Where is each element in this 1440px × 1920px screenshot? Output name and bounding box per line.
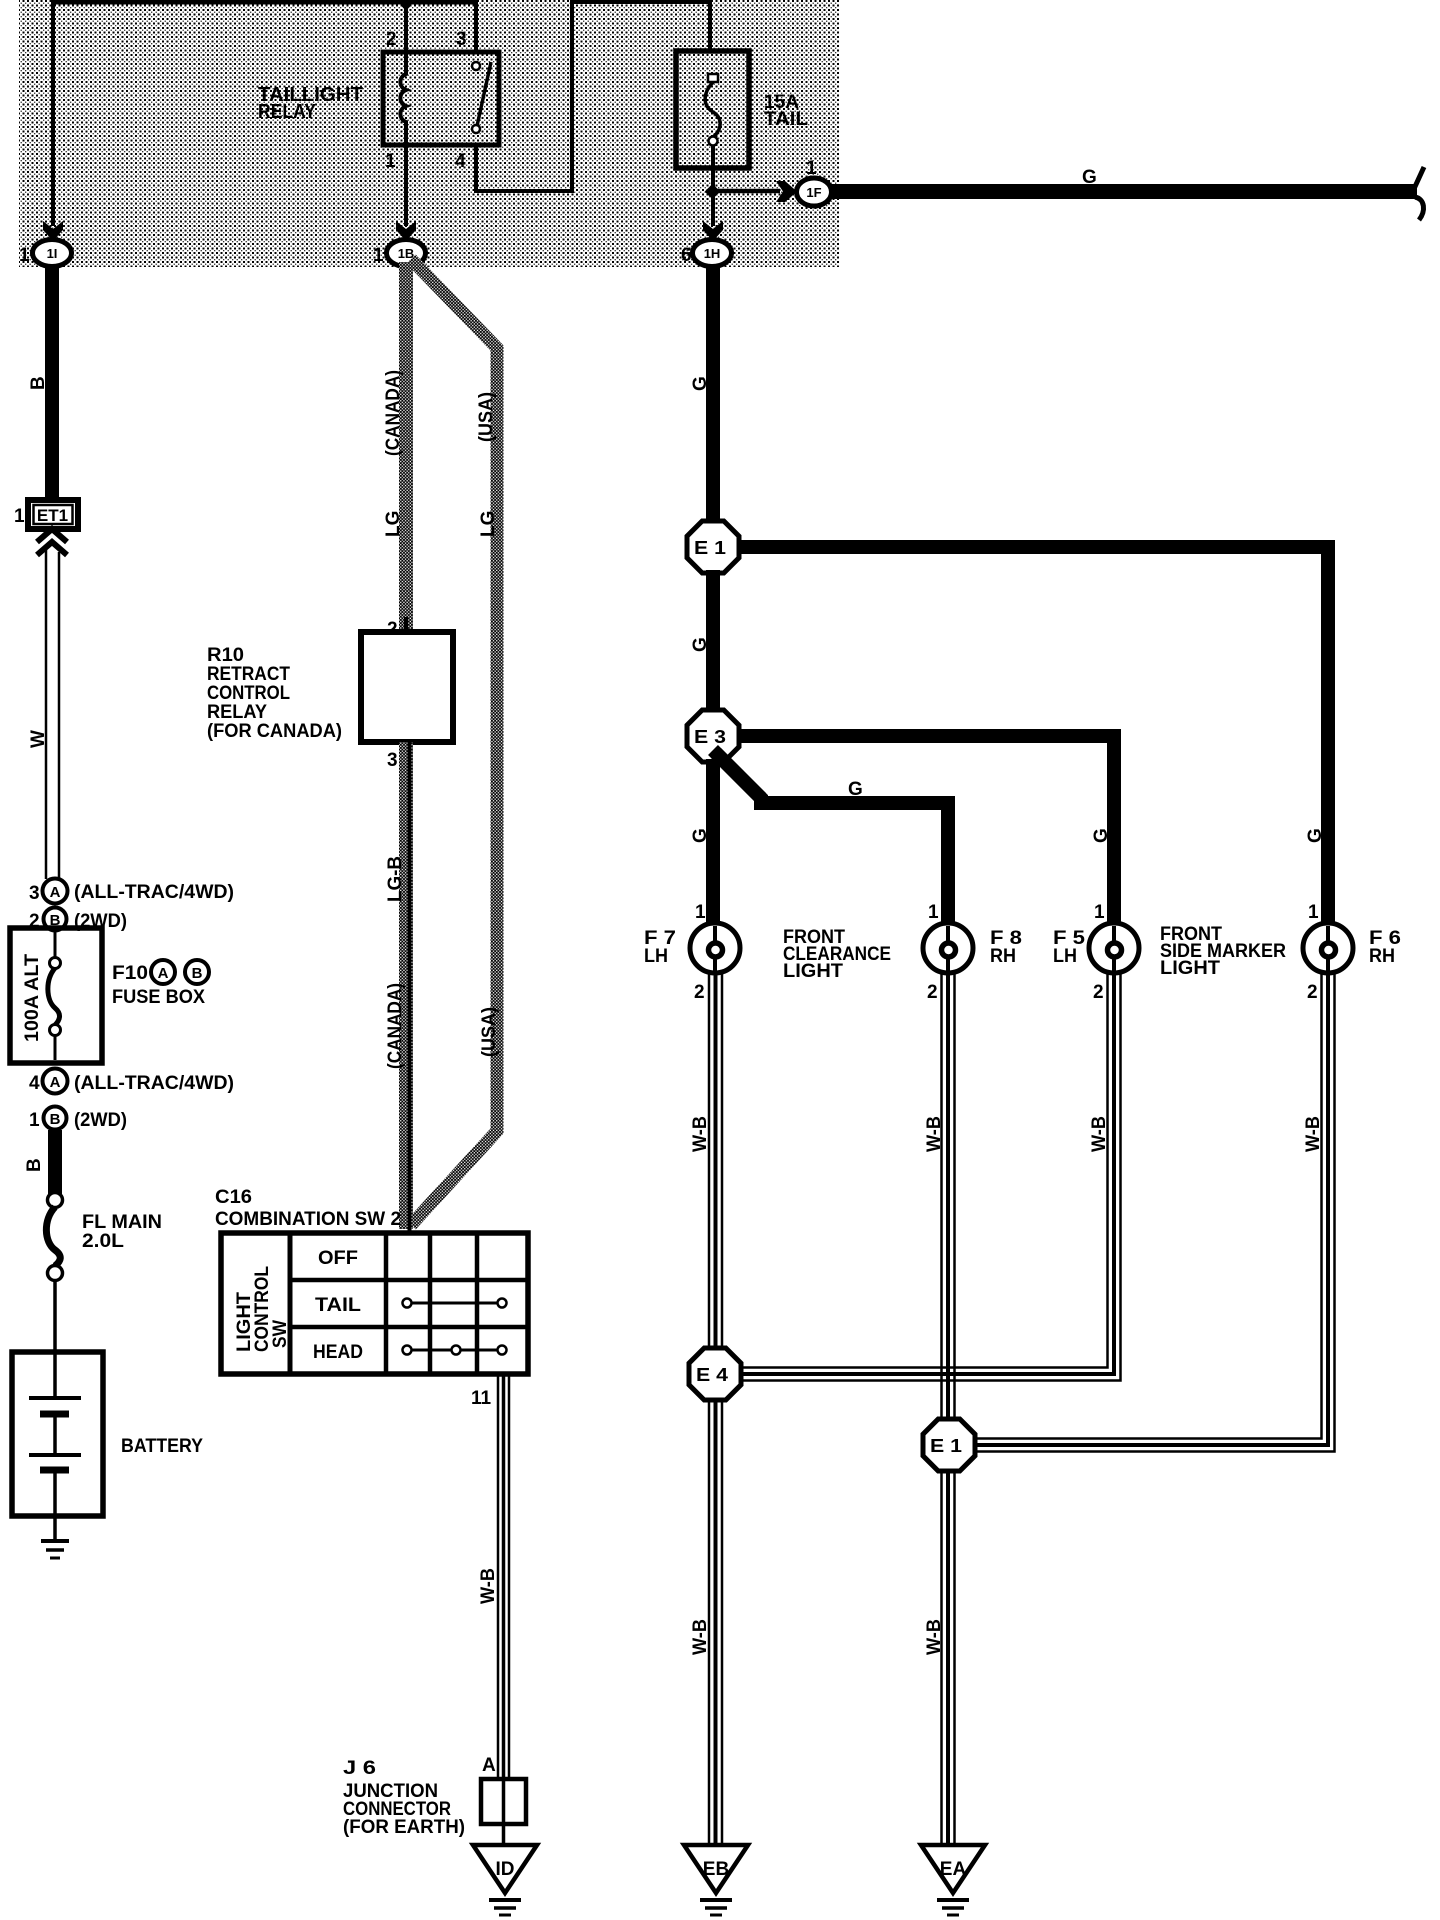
svg-text:1: 1: [29, 1110, 40, 1131]
svg-text:EB: EB: [703, 1859, 729, 1880]
wire: relay pin1 down to 1B: [404, 145, 408, 226]
svg-text:4: 4: [29, 1073, 40, 1094]
svg-text:11: 11: [471, 1388, 492, 1409]
wire: thick G from E1 to E3: [706, 570, 720, 715]
svg-text:LG-B: LG-B: [385, 856, 406, 902]
svg-text:1: 1: [806, 158, 817, 179]
connector circle A (pin3 ALL-TRAC/4WD): [43, 879, 68, 904]
wire: junction to 1F connector: [713, 189, 780, 194]
svg-text:LIGHT: LIGHT: [783, 961, 843, 982]
wire: W-B from switch pin 11 to junction connector J6: [497, 1376, 500, 1779]
svg-text:(ALL-TRAC/4WD): (ALL-TRAC/4WD): [74, 1073, 234, 1094]
fuse element: wavy link: [705, 82, 720, 137]
arrow into connector 1B: [396, 221, 416, 241]
svg-text:100A ALT: 100A ALT: [22, 954, 43, 1042]
svg-text:W-B: W-B: [1089, 1116, 1110, 1152]
svg-text:ET1: ET1: [37, 506, 68, 525]
junction connector J6 box: [481, 1779, 526, 1824]
wire: thick G from E1 right and down to F6: [735, 547, 1328, 925]
svg-text:3: 3: [387, 750, 398, 771]
svg-text:COMBINATION SW 2: COMBINATION SW 2: [215, 1209, 401, 1230]
svg-text:RH: RH: [990, 946, 1016, 967]
ground triangle EB: [684, 1845, 748, 1893]
svg-text:B: B: [192, 965, 203, 982]
svg-text:(2WD): (2WD): [74, 1110, 127, 1131]
svg-text:RELAY: RELAY: [258, 101, 317, 123]
svg-text:2: 2: [1307, 982, 1318, 1003]
wire: fuse bottom down to junction and 1H: [711, 145, 715, 226]
svg-text:B: B: [50, 1111, 61, 1128]
svg-text:(FOR CANADA): (FOR CANADA): [207, 721, 342, 742]
battery box: [12, 1352, 103, 1516]
svg-text:W-B: W-B: [924, 1619, 945, 1655]
svg-text:LH: LH: [644, 946, 668, 967]
svg-text:(CANADA): (CANADA): [385, 983, 406, 1069]
svg-text:LG: LG: [478, 511, 499, 537]
ground triangle ID: [473, 1845, 537, 1893]
svg-text:1I: 1I: [47, 246, 58, 261]
lamp F7 LH front clearance light: [690, 923, 740, 973]
connector E1 octagon: [687, 521, 739, 573]
svg-text:1: 1: [695, 902, 706, 923]
combination switch table box: [221, 1233, 528, 1374]
svg-text:W-B: W-B: [1303, 1116, 1324, 1152]
svg-text:E 3: E 3: [694, 727, 726, 747]
svg-text:RELAY: RELAY: [207, 702, 267, 723]
svg-text:FUSE BOX: FUSE BOX: [112, 987, 205, 1008]
fusible link FL MAIN 2.0L: [48, 1193, 63, 1208]
svg-text:A: A: [482, 1755, 496, 1776]
svg-text:RH: RH: [1369, 946, 1395, 967]
svg-text:TAIL: TAIL: [764, 109, 808, 130]
wire: broken-end squiggle of G feed: [1413, 167, 1424, 220]
connector 1H oval: [693, 240, 732, 267]
svg-text:2: 2: [694, 982, 705, 1003]
svg-text:G: G: [1305, 828, 1326, 843]
svg-text:(USA): (USA): [476, 392, 497, 442]
svg-text:J 6: J 6: [343, 1758, 376, 1779]
svg-text:C16: C16: [215, 1187, 252, 1208]
table row separators: [290, 1278, 528, 1283]
svg-text:W-B: W-B: [924, 1116, 945, 1152]
svg-text:1: 1: [14, 506, 25, 527]
wire: relay pin4 down, right, up and over to fuse: [476, 2, 710, 191]
relay switch arm: [477, 62, 491, 126]
svg-text:(USA): (USA): [479, 1007, 500, 1057]
svg-text:1: 1: [373, 245, 384, 266]
svg-text:A: A: [158, 965, 169, 982]
svg-text:2: 2: [1093, 982, 1104, 1003]
svg-text:2.0L: 2.0L: [82, 1231, 124, 1252]
svg-text:W-B: W-B: [690, 1116, 711, 1152]
svg-text:LIGHT: LIGHT: [1160, 958, 1220, 979]
svg-text:G: G: [690, 376, 711, 391]
retract control relay R10 box: [404, 617, 408, 632]
relay contact lower: [472, 125, 480, 133]
wire: W-B from E4 down to EB ground: [709, 1400, 722, 1845]
fuse element inside 100A ALT: [54, 931, 57, 958]
switch contacts HEAD row: [407, 1349, 502, 1352]
fuse element: top terminal square: [708, 74, 718, 82]
wire: thick G from E3 down to F7: [706, 759, 720, 925]
svg-text:G: G: [1091, 828, 1112, 843]
wire: thick G from E3 right and down to F5: [735, 736, 1114, 925]
relay coil winding inside taillight relay: [400, 52, 406, 145]
connector II oval: [33, 240, 72, 267]
svg-text:LH: LH: [1053, 946, 1077, 967]
svg-text:6: 6: [681, 245, 692, 266]
svg-text:W-B: W-B: [478, 1568, 499, 1604]
svg-text:B: B: [24, 1158, 45, 1172]
svg-text:SW: SW: [270, 1320, 291, 1348]
svg-text:A: A: [50, 884, 61, 901]
wire: FL MAIN to battery: [53, 1280, 57, 1398]
wire: thick G feed to rest of harness: [831, 184, 1417, 199]
svg-text:3: 3: [456, 29, 467, 50]
wire: shaded (CANADA) option wire upper segment 1B to R10: [399, 262, 413, 632]
wire: top bus from pin3 of relay left to battery branch: [51, 0, 478, 5]
wire: W-B from E1 down to EA ground: [942, 1471, 955, 1845]
svg-text:F10: F10: [112, 963, 148, 984]
wire: W double line ET1 to fuse box: [45, 548, 48, 879]
svg-text:(CANADA): (CANADA): [383, 370, 404, 456]
fuse box 100A ALT: [10, 928, 102, 1063]
battery plates: [29, 1396, 81, 1400]
wire: W-B from F8 down to E1 (lower): [942, 973, 955, 1421]
lamp F8 RH front clearance light: [923, 923, 973, 973]
svg-text:HEAD: HEAD: [313, 1342, 363, 1363]
wire: W-B from F7 down to E4: [709, 973, 722, 1350]
svg-text:2: 2: [386, 29, 397, 50]
fuse 15A TAIL box: [676, 51, 749, 168]
ground below battery: [41, 1539, 69, 1543]
connector circle A (pin4 ALL-TRAC/4WD): [43, 1069, 68, 1094]
male terminal chevrons below ET1: [37, 529, 67, 542]
wire: thick G from 1H to E1: [706, 266, 720, 524]
lamp F6 RH front side marker light: [1303, 923, 1353, 973]
node: junction dot at top of relay pin2: [401, 0, 412, 9]
svg-text:1H: 1H: [704, 246, 721, 261]
svg-text:3: 3: [29, 883, 40, 904]
wire: W-B from F5 down and left to E4: [741, 973, 1121, 1381]
svg-text:FL MAIN: FL MAIN: [82, 1212, 162, 1233]
connector E4 octagon: [689, 1348, 741, 1400]
svg-text:W: W: [28, 730, 49, 748]
svg-text:G: G: [690, 637, 711, 652]
svg-text:E 4: E 4: [696, 1365, 728, 1385]
connector ET1: [28, 500, 78, 529]
connector E1 lower octagon: [923, 1419, 975, 1471]
svg-text:1F: 1F: [806, 185, 821, 200]
svg-text:1: 1: [385, 151, 396, 172]
svg-text:W-B: W-B: [690, 1619, 711, 1655]
svg-text:R10: R10: [207, 645, 244, 666]
connector E3 octagon: [687, 710, 739, 762]
svg-text:E 1: E 1: [930, 1436, 962, 1456]
svg-text:1: 1: [1094, 902, 1105, 923]
wire: thick B wire to FL MAIN: [48, 1130, 62, 1194]
wire: left drop to connector II: [51, 0, 55, 226]
svg-text:G: G: [1082, 167, 1097, 188]
wire: shaded (USA) option wire 1B diagonal, down, diagonal to switch: [411, 259, 497, 1225]
svg-text:RETRACT: RETRACT: [207, 664, 290, 685]
svg-text:CONTROL: CONTROL: [207, 683, 290, 704]
svg-text:G: G: [848, 779, 863, 800]
connector circle B (pin1 2WD): [44, 1107, 67, 1130]
connector circle B (pin2 2WD): [44, 908, 67, 931]
svg-text:LG: LG: [383, 511, 404, 537]
wire: thick B wire from II to ET1: [45, 266, 59, 502]
wire: relay pin2 drop from top bus: [404, 2, 408, 52]
arrow into connector 1H: [703, 221, 723, 241]
wire: W-B from F6 down and left to E1 (lower): [975, 973, 1335, 1452]
svg-text:OFF: OFF: [318, 1248, 358, 1269]
switch contacts TAIL row: [407, 1302, 502, 1305]
wire: shaded (CANADA) option wire lower segment R10 to switch: [399, 742, 413, 1229]
svg-text:(ALL-TRAC/4WD): (ALL-TRAC/4WD): [74, 882, 234, 903]
wire: solid LG-B wire over shaded band: [408, 742, 412, 1231]
ground triangle EA: [921, 1845, 985, 1893]
table column separators: [288, 1233, 293, 1374]
svg-text:1: 1: [19, 245, 30, 266]
svg-text:1: 1: [928, 902, 939, 923]
fuse element: bottom terminal circle: [709, 137, 718, 146]
wire: thick G branch E3 diagonal to F8: [716, 753, 948, 925]
arrow into connector II: [43, 221, 63, 241]
svg-text:(FOR EARTH): (FOR EARTH): [343, 1817, 465, 1838]
wire: relay pin3 up to top bus: [474, 2, 478, 52]
svg-text:TAIL: TAIL: [315, 1295, 361, 1316]
lamp F5 LH front side marker light: [1089, 923, 1139, 973]
connector 1B oval: [387, 240, 426, 267]
svg-text:1: 1: [1308, 902, 1319, 923]
arrow into 1F: [776, 181, 797, 202]
svg-text:4: 4: [455, 151, 466, 172]
svg-text:E 1: E 1: [694, 538, 726, 558]
halftone option band: [19, 0, 839, 267]
svg-text:ID: ID: [496, 1859, 515, 1880]
svg-text:2: 2: [927, 982, 938, 1003]
svg-text:G: G: [690, 828, 711, 843]
taillight relay box: [383, 52, 499, 145]
svg-text:EA: EA: [940, 1859, 967, 1880]
node: junction dot fuse output: [705, 184, 721, 200]
svg-text:A: A: [50, 1074, 61, 1091]
relay contact upper: [472, 62, 480, 70]
connector 1F oval: [797, 178, 832, 206]
svg-text:BATTERY: BATTERY: [121, 1436, 203, 1457]
svg-text:B: B: [28, 376, 49, 390]
